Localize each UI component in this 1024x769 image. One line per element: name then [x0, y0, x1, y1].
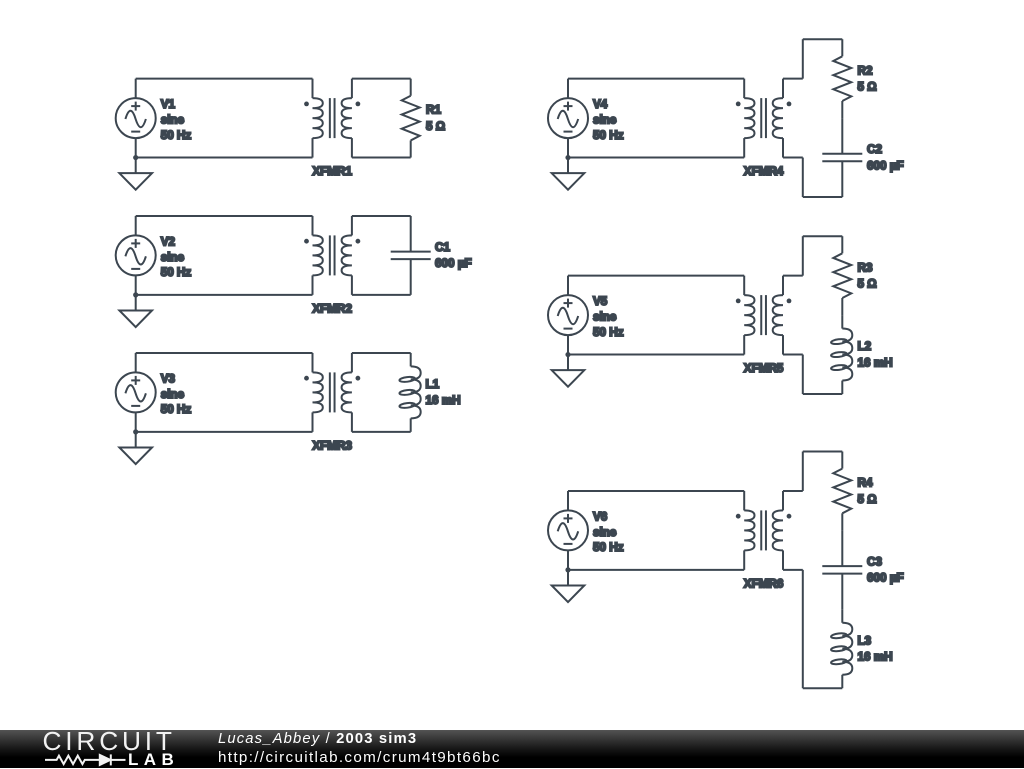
voltage source V2	[116, 235, 156, 275]
label XFMR4	[744, 165, 784, 178]
label R1 5 &#937;	[426, 104, 445, 133]
svg-text:16 mH: 16 mH	[858, 356, 893, 369]
label V2 sine 50 Hz	[161, 235, 192, 279]
svg-text:V6: V6	[593, 510, 608, 523]
svg-text:R1: R1	[426, 104, 441, 117]
wire	[567, 550, 569, 569]
svg-text:R2: R2	[858, 64, 873, 77]
capacitor C2	[822, 118, 862, 197]
junction node	[133, 429, 138, 434]
label V3 sine 50 Hz	[161, 372, 192, 416]
wire	[783, 78, 803, 80]
wire	[136, 78, 313, 80]
svg-text:5 Ω: 5 Ω	[858, 80, 877, 93]
wire	[136, 157, 313, 159]
wire	[802, 236, 804, 275]
footer title	[218, 732, 417, 747]
svg-text:16 mH: 16 mH	[426, 394, 461, 407]
ground	[119, 432, 152, 464]
label R3 5 &#937;	[858, 261, 877, 290]
svg-text:L1: L1	[426, 378, 440, 391]
wire	[135, 353, 137, 372]
svg-text:XFMR3: XFMR3	[312, 439, 352, 452]
wire	[803, 235, 843, 237]
CircuitLab logo text CIRCUIT	[43, 728, 176, 754]
transformer XFMR4	[736, 79, 792, 158]
junction node	[565, 155, 570, 160]
wire	[802, 39, 804, 78]
capacitor C1	[391, 216, 431, 295]
wire	[567, 79, 569, 98]
label C2 600 &#181;F	[867, 143, 904, 172]
label R2 5 &#937;	[858, 64, 877, 93]
junction node	[133, 292, 138, 297]
label L1 16 mH	[426, 378, 461, 407]
voltage source V1	[116, 98, 156, 138]
svg-text:XFMR4: XFMR4	[744, 165, 784, 178]
svg-text:600 µF: 600 µF	[435, 257, 472, 270]
wire	[568, 354, 744, 356]
wire	[783, 569, 803, 571]
transformer XFMR2	[304, 216, 360, 295]
resistor R4	[833, 452, 851, 531]
wire	[803, 687, 843, 689]
label C1 600 &#181;F	[435, 241, 472, 270]
wire	[135, 138, 137, 157]
svg-text:XFMR1: XFMR1	[312, 165, 352, 178]
wire	[803, 451, 843, 453]
resistor R3	[833, 236, 851, 315]
wire	[783, 275, 803, 277]
logo resistor-diode squiggle	[0, 730, 200, 768]
label XFMR3	[312, 439, 352, 452]
svg-text:50 Hz: 50 Hz	[161, 129, 192, 142]
transformer XFMR3	[304, 353, 360, 432]
label V4 sine 50 Hz	[593, 98, 624, 142]
svg-text:C2: C2	[867, 143, 882, 156]
wire	[802, 355, 804, 394]
wire	[803, 38, 843, 40]
wire	[136, 294, 313, 296]
voltage source V3	[116, 372, 156, 412]
ground	[552, 355, 585, 387]
svg-text:sine: sine	[161, 113, 185, 126]
svg-text:50 Hz: 50 Hz	[593, 326, 624, 339]
wire	[352, 352, 411, 354]
svg-text:600 µF: 600 µF	[867, 572, 904, 585]
ground	[119, 295, 152, 327]
capacitor C3	[822, 530, 862, 609]
svg-text:600 µF: 600 µF	[867, 159, 904, 172]
wire	[135, 216, 137, 235]
wire	[567, 491, 569, 510]
wire	[803, 196, 843, 198]
label R4 5 &#937;	[858, 477, 877, 506]
svg-text:C3: C3	[867, 555, 882, 568]
wire	[568, 157, 744, 159]
wire	[136, 215, 313, 217]
wire	[135, 412, 137, 431]
label V1 sine 50 Hz	[161, 98, 192, 142]
label XFMR6	[744, 577, 784, 590]
wire	[802, 158, 804, 197]
wire	[802, 452, 804, 491]
wire	[567, 138, 569, 157]
wire	[783, 157, 803, 159]
wire	[135, 79, 137, 98]
svg-text:50 Hz: 50 Hz	[161, 403, 192, 416]
svg-text:sine: sine	[161, 251, 185, 264]
ground	[552, 570, 585, 602]
svg-text:50 Hz: 50 Hz	[161, 266, 192, 279]
junction node	[565, 567, 570, 572]
inductor L1	[399, 353, 421, 432]
svg-text:50 Hz: 50 Hz	[593, 541, 624, 554]
wire	[568, 275, 744, 277]
wire	[567, 335, 569, 354]
label C3 600 &#181;F	[867, 555, 904, 584]
svg-text:5 Ω: 5 Ω	[426, 120, 445, 133]
svg-text:L2: L2	[858, 340, 872, 353]
transformer XFMR5	[736, 276, 792, 355]
wire	[352, 431, 411, 433]
voltage source V4	[548, 98, 588, 138]
svg-text:5 Ω: 5 Ω	[858, 493, 877, 506]
label XFMR2	[312, 302, 352, 315]
label L2 16 mH	[858, 340, 893, 369]
svg-text:sine: sine	[593, 526, 617, 539]
inductor L2	[831, 315, 853, 394]
svg-text:sine: sine	[161, 388, 185, 401]
wire	[352, 157, 411, 159]
wire	[568, 569, 744, 571]
transformer XFMR6	[736, 491, 792, 570]
svg-text:V3: V3	[161, 372, 176, 385]
junction node	[133, 155, 138, 160]
svg-text:C1: C1	[435, 241, 450, 254]
svg-text:R3: R3	[858, 261, 873, 274]
footer bar	[0, 730, 1024, 768]
svg-text:50 Hz: 50 Hz	[593, 129, 624, 142]
wire	[567, 276, 569, 295]
svg-text:V2: V2	[161, 235, 176, 248]
svg-text:V4: V4	[593, 98, 608, 111]
wire	[352, 294, 411, 296]
label V6 sine 50 Hz	[593, 510, 624, 554]
voltage source V6	[548, 510, 588, 550]
wire	[352, 78, 411, 80]
ground	[552, 158, 585, 190]
svg-text:XFMR6: XFMR6	[744, 577, 784, 590]
svg-text:R4: R4	[858, 477, 873, 490]
label XFMR5	[744, 362, 784, 375]
label L3 16 mH	[858, 634, 893, 663]
footer url	[218, 750, 501, 765]
transformer XFMR1	[304, 79, 360, 158]
wire	[136, 431, 313, 433]
wire	[783, 354, 803, 356]
wire	[568, 78, 744, 80]
wire	[783, 490, 803, 492]
svg-text:XFMR2: XFMR2	[312, 302, 352, 315]
voltage source V5	[548, 295, 588, 335]
wire	[802, 570, 804, 688]
wire	[568, 490, 744, 492]
svg-text:XFMR5: XFMR5	[744, 362, 784, 375]
label V5 sine 50 Hz	[593, 295, 624, 339]
wire	[352, 215, 411, 217]
svg-text:sine: sine	[593, 310, 617, 323]
resistor R1	[402, 79, 420, 158]
svg-text:V5: V5	[593, 295, 608, 308]
svg-text:sine: sine	[593, 113, 617, 126]
ground	[119, 158, 152, 190]
svg-text:16 mH: 16 mH	[858, 651, 893, 664]
junction node	[565, 352, 570, 357]
svg-text:V1: V1	[161, 98, 176, 111]
wire	[136, 352, 313, 354]
svg-text:L3: L3	[858, 634, 872, 647]
label XFMR1	[312, 165, 352, 178]
svg-text:5 Ω: 5 Ω	[858, 277, 877, 290]
wire	[803, 393, 843, 395]
CircuitLab logo text LAB	[128, 751, 179, 768]
resistor R2	[833, 39, 851, 118]
inductor L3	[831, 609, 853, 688]
wire	[135, 275, 137, 294]
